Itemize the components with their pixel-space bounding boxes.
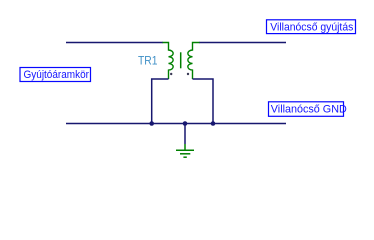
node Villanócső GND label box (269, 102, 347, 117)
wire bottom rail (66, 123, 286, 125)
ground symbol (176, 144, 194, 157)
node Gyújtóáramkör label box (20, 68, 91, 82)
transformer TR1 secondary phase dot (187, 73, 189, 75)
wire top rail left segment (66, 42, 163, 44)
wire ground stub (184, 124, 186, 145)
junction right (211, 121, 216, 126)
transformer TR1 core (180, 52, 182, 68)
svg-text:Villanócső GND: Villanócső GND (271, 104, 347, 116)
junction middle (183, 121, 188, 126)
junction left (149, 121, 154, 126)
wire top rail right segment (199, 42, 286, 44)
svg-text:Villanócső gyújtás: Villanócső gyújtás (270, 22, 353, 34)
wire primary bottom to rail (152, 79, 169, 124)
transformer TR1 secondary winding (188, 43, 200, 80)
node Villanócső gyújtás label box (267, 20, 356, 34)
svg-text:Gyújtóáramkör: Gyújtóáramkör (24, 69, 90, 81)
wire secondary bottom to rail (193, 79, 214, 124)
transformer TR1 primary phase dot (170, 73, 172, 75)
svg-text:TR1: TR1 (138, 56, 158, 68)
transformer TR1 primary winding (163, 43, 174, 80)
